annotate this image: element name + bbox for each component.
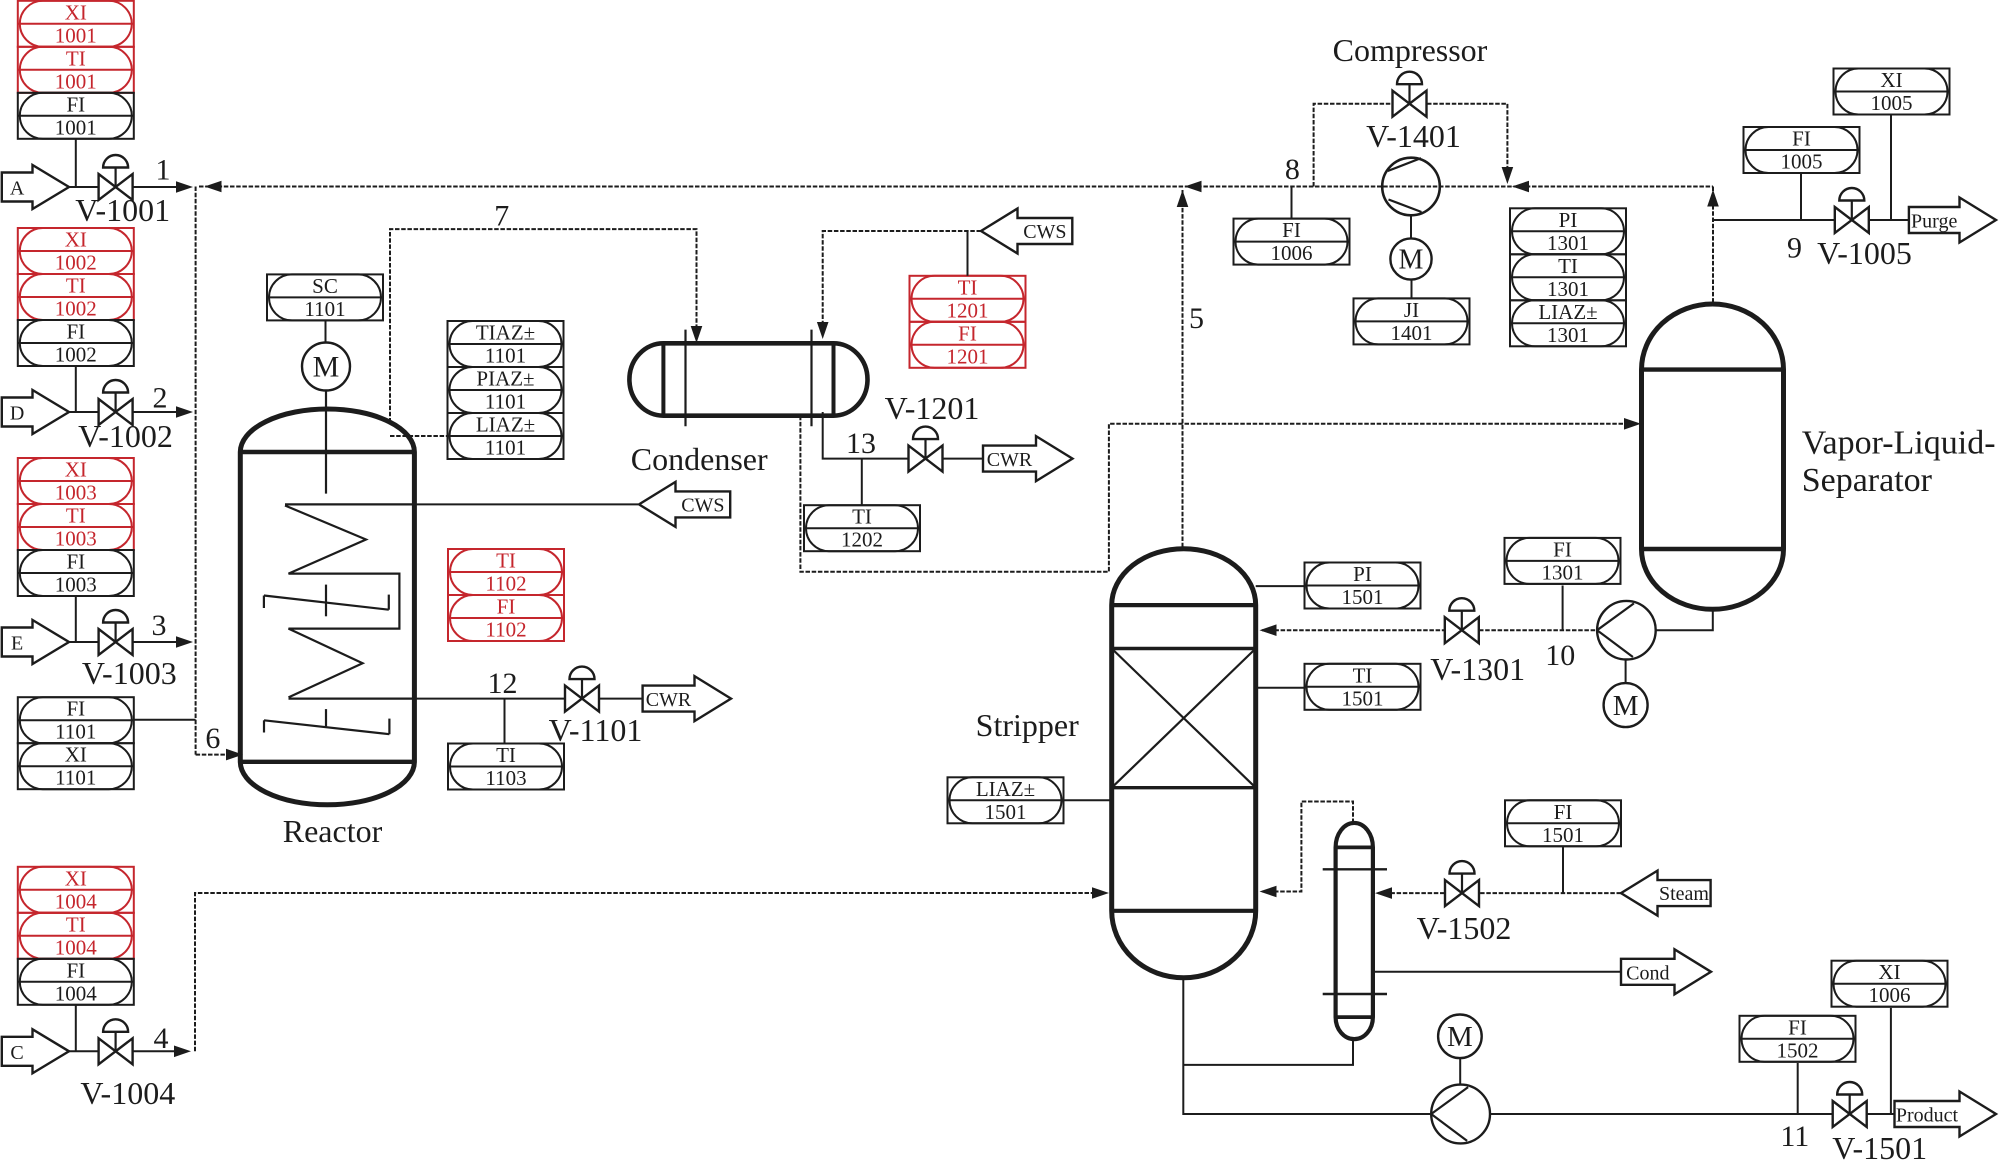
valve V-1501 xyxy=(1833,1082,1867,1127)
svg-text:FI: FI xyxy=(1553,537,1572,561)
flag Purge xyxy=(1909,198,1996,243)
flag CWS condenser xyxy=(981,209,1072,254)
svg-text:TI: TI xyxy=(1353,663,1373,687)
svg-text:1001: 1001 xyxy=(55,23,97,47)
node vapor return arrow into stripper xyxy=(1260,886,1277,898)
instrument FI 1004 xyxy=(18,958,134,1005)
valve V-1005 xyxy=(1835,188,1869,233)
label stream 12 xyxy=(488,667,518,700)
label V-1001 xyxy=(75,192,170,228)
instrument FI 1101 xyxy=(18,697,134,744)
instrument XI 1002 xyxy=(18,228,134,275)
wire TI-1501 connection xyxy=(1256,687,1305,689)
instrument SC 1101 xyxy=(267,274,383,321)
FI-1002 stem xyxy=(75,366,77,412)
svg-text:1501: 1501 xyxy=(1342,686,1384,710)
svg-text:XI: XI xyxy=(65,228,87,252)
reactor coil bottom line xyxy=(289,697,415,699)
flag CWR stream 12 xyxy=(643,676,731,721)
wire compressor bypass xyxy=(1314,104,1392,187)
product pump xyxy=(1431,1085,1490,1144)
instrument FI 1301 xyxy=(1505,537,1621,584)
svg-text:LIAZ±: LIAZ± xyxy=(976,777,1035,801)
label Separator xyxy=(1802,462,1933,499)
wire TI-1202 stem xyxy=(861,459,863,506)
svg-text:8: 8 xyxy=(1285,153,1300,186)
svg-text:Compressor: Compressor xyxy=(1333,32,1488,68)
svg-text:TI: TI xyxy=(66,274,86,298)
svg-text:M: M xyxy=(1447,1021,1473,1053)
svg-text:12: 12 xyxy=(488,667,518,700)
svg-text:1103: 1103 xyxy=(485,766,526,790)
reactor coil top line xyxy=(285,503,414,505)
svg-text:TI: TI xyxy=(66,504,86,528)
valve V-1004 xyxy=(99,1019,133,1064)
svg-text:XI: XI xyxy=(65,743,87,767)
wire recycle header stream 1/8 (y=186) xyxy=(199,186,1713,188)
wire stream 5 stripper overhead xyxy=(1182,190,1184,547)
svg-text:V-1201: V-1201 xyxy=(885,390,980,426)
wire compressor bypass right xyxy=(1427,104,1507,170)
wire feed A to junction xyxy=(69,186,178,188)
wire stream 10 stripper side xyxy=(1262,629,1445,631)
wire CWS line from reactor xyxy=(414,503,638,505)
svg-text:V-1005: V-1005 xyxy=(1817,235,1912,271)
wire LIAZ-1501 connection xyxy=(1064,799,1112,801)
svg-text:FI: FI xyxy=(1554,800,1573,824)
svg-text:5: 5 xyxy=(1189,302,1204,335)
instrument PI 1301 xyxy=(1510,208,1626,255)
node stream 2 arrow xyxy=(176,406,193,418)
instrument FI 1002 xyxy=(18,320,134,367)
svg-text:Steam: Steam xyxy=(1659,883,1709,905)
svg-text:1101: 1101 xyxy=(55,720,96,744)
stripper vessel xyxy=(1112,549,1256,978)
label V-1005 xyxy=(1817,235,1912,271)
svg-text:V-1002: V-1002 xyxy=(78,418,173,454)
label stream 2 xyxy=(153,382,168,415)
wire stream 12 reactor to V-1101 xyxy=(414,698,565,700)
svg-text:TI: TI xyxy=(1558,254,1578,278)
svg-text:Reactor: Reactor xyxy=(283,813,383,849)
product pump motor M xyxy=(1438,1015,1482,1059)
svg-text:6: 6 xyxy=(205,722,220,755)
svg-text:CWS: CWS xyxy=(681,494,724,516)
svg-text:1101: 1101 xyxy=(304,297,345,321)
compressor xyxy=(1382,158,1440,216)
svg-text:Separator: Separator xyxy=(1802,462,1933,499)
wire stream 12 valve to CWR xyxy=(599,698,642,700)
reactor vessel xyxy=(240,409,414,805)
label V-1004 xyxy=(80,1075,175,1111)
svg-text:XI: XI xyxy=(65,866,87,890)
wire XI-1005 stem xyxy=(1890,115,1892,221)
label Compressor xyxy=(1333,32,1488,68)
instrument TI 1102 xyxy=(448,549,564,596)
label stream 9 xyxy=(1787,232,1802,265)
wire separator overhead riser xyxy=(1712,187,1714,305)
instrument TI 1103 xyxy=(448,743,564,790)
wire purge line xyxy=(1713,219,1835,221)
svg-text:TI: TI xyxy=(66,46,86,70)
steam heater column xyxy=(1336,823,1373,1039)
label stream 11 xyxy=(1780,1120,1809,1153)
svg-text:M: M xyxy=(1399,245,1424,276)
feed flag E xyxy=(2,620,69,664)
svg-text:FI: FI xyxy=(66,958,85,982)
svg-text:A: A xyxy=(10,178,25,200)
wire feed D xyxy=(69,411,178,413)
svg-text:1003: 1003 xyxy=(55,573,97,597)
label Vapor-Liquid- xyxy=(1802,425,1996,462)
wire condensate out to Cond flag xyxy=(1373,971,1621,973)
svg-text:1001: 1001 xyxy=(55,69,97,93)
svg-text:SC: SC xyxy=(312,274,338,298)
valve V-1201 xyxy=(909,427,943,472)
separator pump motor M xyxy=(1604,683,1648,727)
svg-text:M: M xyxy=(1613,690,1639,722)
instrument TI 1001 xyxy=(18,46,134,93)
label stream 4 xyxy=(154,1022,169,1055)
svg-text:XI: XI xyxy=(1880,68,1902,92)
condenser left tube sheet xyxy=(661,343,665,415)
JI-1401 stem xyxy=(1411,280,1413,299)
valve V-1401 xyxy=(1393,72,1427,117)
svg-text:V-1003: V-1003 xyxy=(82,655,177,691)
svg-text:CWR: CWR xyxy=(646,689,692,711)
svg-text:1002: 1002 xyxy=(55,297,97,321)
svg-text:PI: PI xyxy=(1353,562,1372,586)
svg-text:CWS: CWS xyxy=(1023,221,1066,243)
instrument XI 1003 xyxy=(18,458,134,505)
instrument TI 1004 xyxy=(18,912,134,959)
node feed arrow into separator xyxy=(1624,418,1641,430)
svg-text:PIAZ±: PIAZ± xyxy=(476,367,534,391)
reactor agitator blade lower xyxy=(264,709,389,734)
svg-text:1005: 1005 xyxy=(1871,91,1913,115)
wire stream 10 valve to pump xyxy=(1479,629,1597,631)
svg-text:1006: 1006 xyxy=(1271,241,1313,265)
instrument TIAZ&#177; 1101 xyxy=(448,321,564,368)
svg-text:TI: TI xyxy=(496,743,516,767)
svg-text:FI: FI xyxy=(1788,1015,1807,1039)
wire separator bottoms to pump xyxy=(1656,609,1713,630)
wire FI-1301 stem xyxy=(1562,586,1564,631)
svg-text:V-1101: V-1101 xyxy=(549,712,643,748)
valve V-1502 xyxy=(1445,861,1479,906)
wire steam valve to column xyxy=(1378,892,1445,894)
svg-text:Product: Product xyxy=(1896,1105,1959,1127)
svg-text:D: D xyxy=(10,403,24,425)
svg-text:TI: TI xyxy=(496,549,516,573)
instrument XI 1001 xyxy=(18,0,134,47)
svg-text:Purge: Purge xyxy=(1911,211,1957,233)
wire FI-1005 stem xyxy=(1800,173,1802,220)
node junction feed-1 arrow xyxy=(176,181,193,193)
svg-text:1003: 1003 xyxy=(55,481,97,505)
wire product pump to valve xyxy=(1490,1113,1832,1115)
svg-text:FI: FI xyxy=(958,321,977,345)
svg-text:1501: 1501 xyxy=(1342,585,1384,609)
wire FI-1006 stem xyxy=(1291,187,1293,219)
label stream 13 xyxy=(846,427,876,460)
valve V-1002 xyxy=(99,380,133,425)
valve V-1301 xyxy=(1445,598,1479,643)
wire steam line flag to valve xyxy=(1480,892,1622,894)
SC-1101 stem xyxy=(325,321,327,343)
instrument FI 1005 xyxy=(1744,127,1860,174)
svg-text:Stripper: Stripper xyxy=(976,707,1079,743)
svg-text:1301: 1301 xyxy=(1547,323,1589,347)
label stream 10 xyxy=(1545,639,1575,672)
svg-text:1201: 1201 xyxy=(947,298,989,322)
separator pump motor stem xyxy=(1625,660,1627,684)
svg-text:C: C xyxy=(10,1042,23,1064)
svg-text:TIAZ±: TIAZ± xyxy=(476,321,535,345)
label stream 3 xyxy=(152,609,167,642)
svg-text:1101: 1101 xyxy=(485,390,526,414)
svg-text:FI: FI xyxy=(1282,218,1301,242)
wire XI-1006 stem xyxy=(1890,1008,1892,1114)
svg-text:1102: 1102 xyxy=(485,572,526,596)
instrument TI 1002 xyxy=(18,274,134,321)
svg-text:Cond: Cond xyxy=(1626,962,1669,984)
label V-1201 xyxy=(885,390,980,426)
svg-text:XI: XI xyxy=(1878,960,1900,984)
instrument FI 1501 xyxy=(1505,800,1621,847)
condenser right baffle xyxy=(810,330,812,427)
svg-text:1003: 1003 xyxy=(55,527,97,551)
label V-1002 xyxy=(78,418,173,454)
svg-text:FI: FI xyxy=(66,92,85,116)
wire feed E xyxy=(69,641,178,643)
svg-text:1004: 1004 xyxy=(55,889,98,913)
svg-text:1004: 1004 xyxy=(55,981,98,1005)
valve V-1101 xyxy=(565,667,599,712)
svg-text:1006: 1006 xyxy=(1869,983,1911,1007)
label stream 8 xyxy=(1285,153,1300,186)
instrument TI 1301 xyxy=(1510,254,1626,301)
wire condensate condenser to separator xyxy=(800,416,1627,572)
instrument TI 1501 xyxy=(1305,663,1421,710)
compressor motor stem xyxy=(1410,215,1412,238)
svg-text:FI: FI xyxy=(1792,127,1811,151)
instrument LIAZ&#177; 1101 xyxy=(448,413,564,460)
compressor motor M xyxy=(1390,238,1431,279)
instrument JI 1401 xyxy=(1354,298,1470,345)
svg-text:M: M xyxy=(313,351,340,384)
wire FI-1501 stem xyxy=(1562,847,1564,893)
node stream 6 arrow xyxy=(226,749,243,761)
flag Steam xyxy=(1621,871,1711,916)
node bypass arrow down xyxy=(1502,167,1514,184)
label stream 5 xyxy=(1189,302,1204,335)
label V-1501 xyxy=(1832,1130,1927,1166)
feed flag C xyxy=(2,1029,69,1073)
svg-text:1501: 1501 xyxy=(1542,823,1584,847)
svg-text:1401: 1401 xyxy=(1391,321,1433,345)
label V-1101 xyxy=(549,712,643,748)
reactor agitator shaft xyxy=(325,391,327,494)
svg-text:1502: 1502 xyxy=(1777,1038,1819,1062)
svg-text:1102: 1102 xyxy=(485,618,526,642)
wire PI-1501 connection xyxy=(1256,585,1305,587)
flag CWS reactor xyxy=(639,482,730,527)
svg-text:Condenser: Condenser xyxy=(631,441,768,477)
svg-text:XI: XI xyxy=(65,0,87,24)
wire stream 13 valve to CWR xyxy=(943,458,983,460)
svg-text:V-1502: V-1502 xyxy=(1417,910,1512,946)
svg-text:1201: 1201 xyxy=(947,344,989,368)
label Reactor xyxy=(283,813,383,849)
flag Product xyxy=(1895,1092,1997,1137)
instrument TI 1201 xyxy=(910,275,1026,322)
label V-1401 xyxy=(1366,118,1461,154)
svg-text:1101: 1101 xyxy=(485,344,526,368)
FI-1003 stem xyxy=(75,596,77,642)
svg-text:1202: 1202 xyxy=(841,528,883,552)
instrument XI 1101 xyxy=(18,743,134,790)
svg-text:1301: 1301 xyxy=(1547,231,1589,255)
svg-text:TI: TI xyxy=(66,912,86,936)
wire product valve to flag xyxy=(1867,1113,1894,1115)
svg-text:11: 11 xyxy=(1780,1120,1809,1153)
feed flag A xyxy=(2,165,69,209)
flag Cond xyxy=(1621,949,1711,994)
valve V-1003 xyxy=(99,610,133,655)
svg-text:1: 1 xyxy=(156,154,171,187)
wire junction vertical x=195.6 (streams 1-3 to 6) xyxy=(195,187,197,755)
svg-text:4: 4 xyxy=(154,1022,169,1055)
svg-text:7: 7 xyxy=(494,200,509,233)
svg-text:LIAZ±: LIAZ± xyxy=(476,413,535,437)
svg-text:V-1004: V-1004 xyxy=(80,1075,175,1111)
wire stream 7 reactor overhead to condenser xyxy=(390,229,697,422)
wire vapor return small column to stripper xyxy=(1262,802,1353,892)
label stream 6 xyxy=(205,722,220,755)
instrument XI 1004 xyxy=(18,866,134,913)
TI-1201 stem xyxy=(967,231,969,276)
condenser right tube sheet xyxy=(832,343,836,415)
steam heater upper support xyxy=(1323,868,1387,870)
separator pump xyxy=(1597,601,1656,660)
svg-text:1004: 1004 xyxy=(55,935,98,959)
wire FI-1502 stem xyxy=(1797,1063,1799,1114)
node stream 7 arrow into condenser xyxy=(691,326,703,343)
instrument FI 1201 xyxy=(910,321,1026,368)
steam heater lower support xyxy=(1323,993,1387,995)
svg-text:1101: 1101 xyxy=(55,766,96,790)
instrument TI 1003 xyxy=(18,504,134,551)
label Condenser xyxy=(631,441,768,477)
condenser left baffle xyxy=(684,330,686,427)
svg-text:V-1001: V-1001 xyxy=(75,192,170,228)
svg-text:1002: 1002 xyxy=(55,251,97,275)
instrument FI 1003 xyxy=(18,550,134,597)
reactor motor M xyxy=(302,343,350,391)
svg-text:LIAZ±: LIAZ± xyxy=(1538,300,1597,324)
svg-text:E: E xyxy=(11,633,23,655)
svg-text:10: 10 xyxy=(1545,639,1575,672)
node stream 5 arrow up xyxy=(1177,190,1189,207)
instrument TI 1202 xyxy=(804,505,920,552)
svg-text:2: 2 xyxy=(153,382,168,415)
label stream 7 xyxy=(494,200,509,233)
label stream 1 xyxy=(156,154,171,187)
instrument XI 1005 xyxy=(1834,68,1950,115)
flag CWR V-1201 xyxy=(983,436,1073,481)
label Stripper xyxy=(976,707,1079,743)
svg-text:JI: JI xyxy=(1404,298,1419,322)
svg-text:PI: PI xyxy=(1559,208,1578,232)
wire TI-1103 stem xyxy=(504,699,506,744)
reactor coil zigzag upper xyxy=(285,506,399,698)
instrument LIAZ&#177; 1501 xyxy=(948,777,1064,824)
FI-1001 stem xyxy=(75,139,77,187)
node stream 4 arrow xyxy=(174,1046,191,1058)
valve V-1001 xyxy=(99,155,133,200)
node steam arrow into column xyxy=(1375,887,1392,899)
instrument FI 1006 xyxy=(1234,218,1350,265)
svg-text:FI: FI xyxy=(66,697,85,721)
svg-text:V-1501: V-1501 xyxy=(1832,1130,1927,1166)
svg-text:V-1401: V-1401 xyxy=(1366,118,1461,154)
instrument PIAZ&#177; 1101 xyxy=(448,367,564,414)
svg-text:FI: FI xyxy=(66,320,85,344)
label V-1301 xyxy=(1430,651,1525,687)
svg-text:1005: 1005 xyxy=(1781,150,1823,174)
stripper packing section xyxy=(1112,649,1256,788)
wire LIAZ-1101 connection xyxy=(390,435,448,437)
node stream 4 arrow into stripper xyxy=(1092,887,1109,899)
feed flag D xyxy=(2,390,69,434)
svg-text:9: 9 xyxy=(1787,232,1802,265)
svg-text:3: 3 xyxy=(152,609,167,642)
svg-text:1001: 1001 xyxy=(55,115,97,139)
svg-text:1002: 1002 xyxy=(55,343,97,367)
instrument FI 1102 xyxy=(448,595,564,642)
FI-1004 stem xyxy=(75,1005,77,1052)
label V-1003 xyxy=(82,655,177,691)
wire stripper bottoms xyxy=(1183,978,1431,1114)
wire stream 13 branch xyxy=(823,412,908,459)
product pump motor stem xyxy=(1459,1058,1461,1085)
svg-text:1301: 1301 xyxy=(1542,560,1584,584)
svg-text:CWR: CWR xyxy=(987,449,1033,471)
svg-text:1101: 1101 xyxy=(485,436,526,460)
node stream 3 arrow xyxy=(176,636,193,648)
node recycle arrow right of bypass xyxy=(1512,181,1529,193)
svg-text:XI: XI xyxy=(65,458,87,482)
svg-text:Vapor-Liquid-: Vapor-Liquid- xyxy=(1802,425,1996,462)
node recycle arrow into junction xyxy=(205,181,222,193)
wire purge valve to flag xyxy=(1869,219,1908,221)
wire CWS line into condenser xyxy=(823,231,981,324)
svg-text:V-1301: V-1301 xyxy=(1430,651,1525,687)
svg-text:FI: FI xyxy=(497,595,516,619)
svg-text:TI: TI xyxy=(852,505,872,529)
instrument FI 1001 xyxy=(18,92,134,139)
svg-text:TI: TI xyxy=(958,275,978,299)
instrument LIAZ&#177; 1301 xyxy=(1510,300,1626,347)
vapor-liquid separator vessel xyxy=(1642,304,1784,609)
label V-1502 xyxy=(1417,910,1512,946)
svg-text:1301: 1301 xyxy=(1547,277,1589,301)
instrument XI 1006 xyxy=(1832,960,1948,1007)
node recycle arrow left of stream-5 junction xyxy=(1185,181,1202,193)
wire stream 4 riser and stripper feed xyxy=(195,893,1093,1051)
svg-text:13: 13 xyxy=(846,427,876,460)
